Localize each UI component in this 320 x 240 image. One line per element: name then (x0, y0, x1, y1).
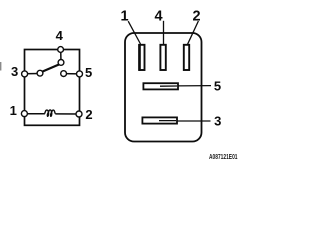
terminal slot 2 (184, 45, 189, 70)
wire: coil to pin 2 (56, 113, 79, 115)
terminal slot 1 (139, 45, 144, 70)
terminal pin 5 (77, 71, 83, 77)
NO contact node (61, 71, 67, 77)
pole node (58, 60, 64, 66)
svg-text:2: 2 (85, 107, 92, 122)
NC contact node (37, 70, 43, 76)
relay body outline (25, 50, 80, 126)
terminal slot 5 (143, 83, 178, 89)
svg-text:4: 4 (56, 28, 64, 43)
wire: pin 3 to NC contact (25, 73, 41, 75)
svg-text:4: 4 (154, 8, 162, 24)
leader line pin 1 (128, 21, 140, 44)
svg-text:5: 5 (214, 78, 221, 93)
coil L1 (44, 110, 56, 116)
leader line pin 3 (160, 120, 211, 122)
terminal pin 1 (21, 111, 27, 117)
wire: pin 4 stem (60, 50, 62, 63)
leader line pin 4 (163, 21, 165, 44)
terminal pin 2 (76, 111, 82, 117)
terminal slot 1 thick left wall (138, 44, 141, 71)
svg-text:3: 3 (214, 114, 221, 129)
terminal pin 3 (22, 71, 28, 77)
wire: pin 1 to coil (25, 113, 45, 115)
svg-text:2: 2 (192, 8, 200, 24)
terminal slot 4 (160, 45, 165, 70)
terminal slot 3 (142, 117, 177, 123)
scan artifact left edge (0, 62, 1, 71)
svg-text:1: 1 (121, 8, 129, 24)
leader line pin 2 (188, 21, 199, 44)
svg-text:3: 3 (11, 64, 18, 79)
connector housing outline (125, 33, 202, 142)
switch arm (movable contact) (42, 64, 59, 71)
leader line pin 5 (160, 85, 211, 87)
terminal pin 4 (58, 47, 64, 53)
svg-text:5: 5 (85, 65, 92, 80)
svg-text:1: 1 (10, 103, 17, 118)
wire: NO contact to pin 5 (64, 73, 80, 75)
svg-text:A087121E01: A087121E01 (209, 152, 238, 161)
